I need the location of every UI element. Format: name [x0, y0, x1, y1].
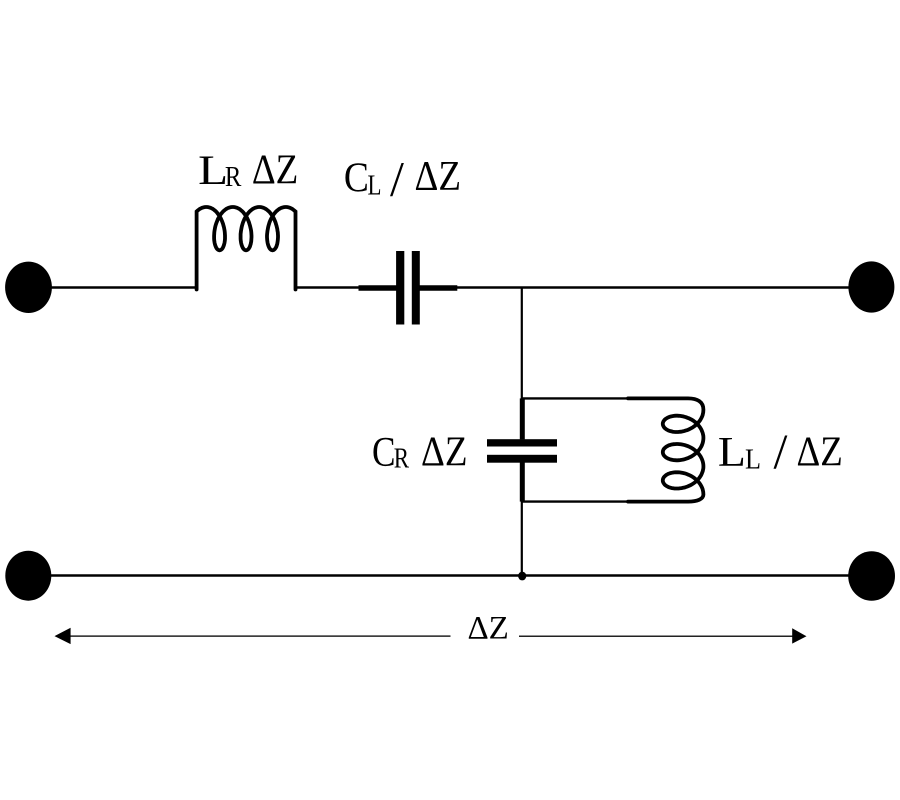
svg-text:ΔZ: ΔZ — [796, 430, 842, 476]
svg-text:L: L — [368, 170, 382, 201]
svg-text:C: C — [344, 156, 369, 202]
svg-text:/: / — [390, 150, 404, 206]
svg-text:L: L — [745, 445, 761, 476]
svg-text:ΔZ: ΔZ — [415, 154, 462, 200]
svg-text:C: C — [372, 430, 396, 476]
svg-text:R: R — [394, 443, 410, 474]
svg-text:ΔZ: ΔZ — [252, 147, 299, 193]
svg-text:L: L — [198, 148, 228, 194]
svg-text:/: / — [773, 423, 787, 479]
svg-text:L: L — [718, 430, 746, 476]
svg-text:ΔZ: ΔZ — [467, 611, 508, 647]
svg-text:R: R — [225, 162, 242, 193]
svg-text:ΔZ: ΔZ — [421, 429, 468, 475]
